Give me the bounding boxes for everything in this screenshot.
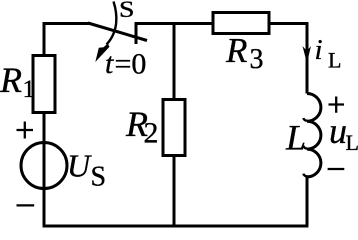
wire top-left segment with left corner	[44, 24, 89, 57]
inductor L coil	[307, 94, 321, 177]
svg-text:S: S	[91, 162, 107, 193]
label iL	[315, 34, 342, 73]
svg-text:L: L	[346, 130, 358, 155]
inductor coil cusp curls	[303, 118, 307, 176]
svg-text:S: S	[119, 0, 135, 23]
resistor R1 body	[33, 56, 55, 113]
svg-text:L: L	[328, 48, 341, 73]
wire left vertical below R1 through source to bottom	[43, 113, 46, 227]
wire right vertical below inductor	[306, 177, 309, 226]
inductor current arrow head iL	[303, 46, 312, 63]
switch arrow head	[95, 44, 109, 63]
switch actuation curved arrow	[107, 2, 117, 45]
svg-text:U: U	[67, 148, 92, 184]
switch fixed contact tick	[135, 22, 138, 44]
svg-text:3: 3	[250, 44, 264, 75]
svg-text:1: 1	[23, 76, 36, 103]
plus sign of source US	[17, 122, 34, 139]
resistor R2 body	[163, 100, 185, 156]
svg-text:=0: =0	[115, 48, 147, 81]
label uL	[329, 111, 358, 155]
wire R2 branch top	[173, 24, 176, 101]
plus sign of uL	[329, 97, 345, 113]
svg-text:R: R	[225, 31, 247, 70]
label US	[67, 148, 106, 193]
svg-text:u: u	[329, 111, 347, 151]
wire bottom horizontal	[43, 225, 309, 228]
resistor R3 body	[213, 13, 269, 34]
label t=0	[105, 47, 146, 81]
label R1	[0, 60, 35, 103]
svg-text:i: i	[315, 34, 323, 66]
minus sign of uL	[328, 168, 345, 170]
minus sign of source US	[17, 204, 35, 206]
wire R2 branch bottom	[173, 156, 176, 227]
label S switch	[119, 0, 135, 23]
voltage source US circle	[21, 143, 67, 189]
svg-text:t: t	[105, 47, 114, 80]
label R3	[225, 31, 264, 75]
svg-text:R: R	[0, 60, 22, 100]
switch S blade	[88, 23, 147, 41]
svg-text:2: 2	[144, 117, 159, 150]
wire R3 to right corner down to inductor	[269, 24, 307, 94]
label L inductor	[285, 118, 306, 158]
svg-text:L: L	[285, 118, 306, 158]
wire top middle segment	[135, 22, 213, 25]
label R2	[125, 104, 159, 150]
